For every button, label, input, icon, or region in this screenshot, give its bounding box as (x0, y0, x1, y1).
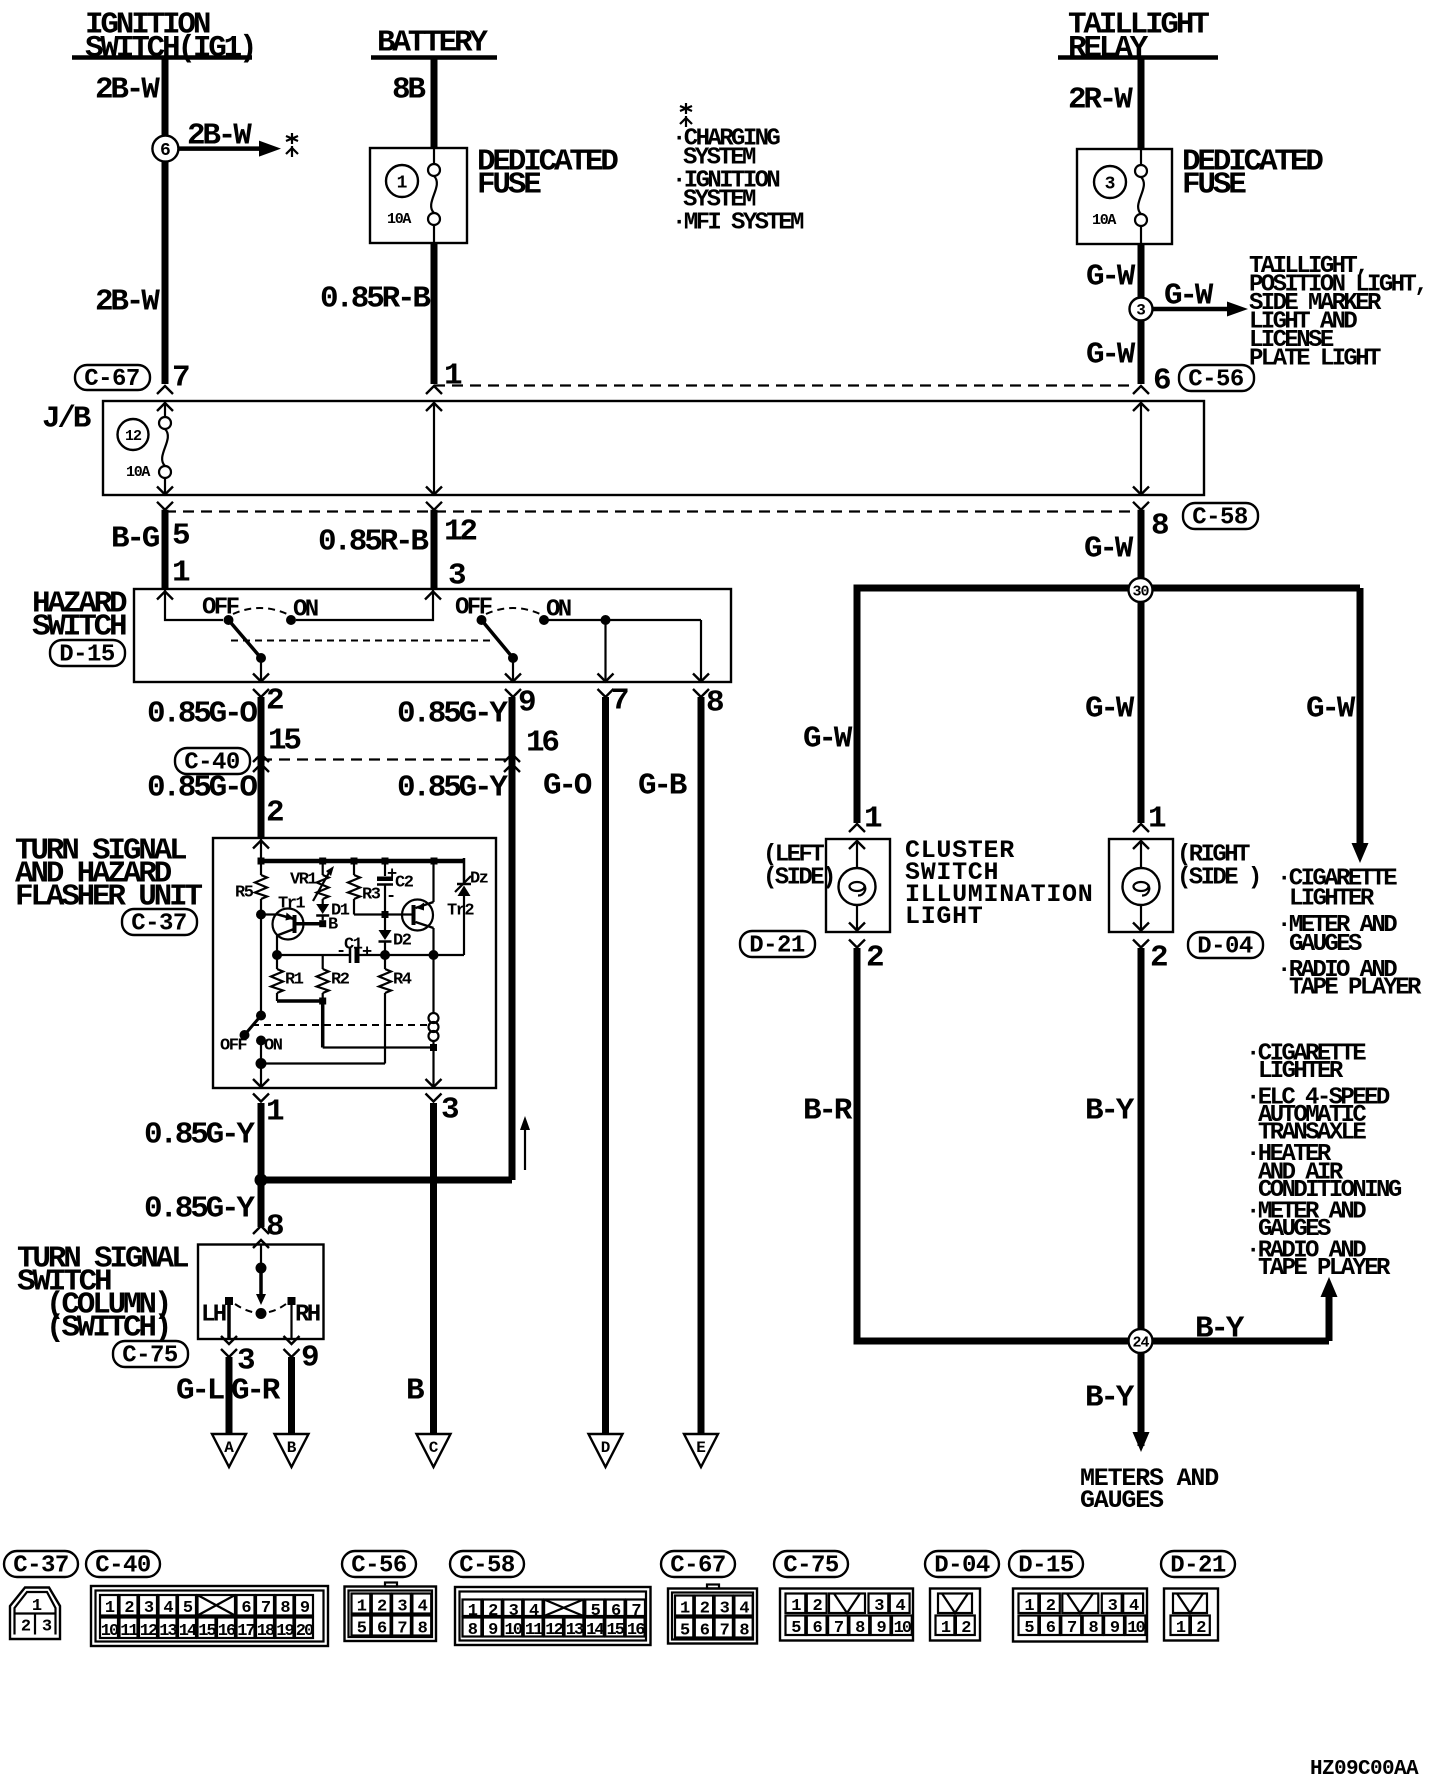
svg-text:0.85G-O: 0.85G-O (147, 771, 257, 806)
dashed arc turn signal switch (235, 1304, 286, 1313)
svg-text:19: 19 (276, 1622, 294, 1641)
variable resistor VR1 (290, 861, 334, 904)
label B-R (803, 1094, 853, 1129)
chevrons flasher pin 3 (426, 1079, 442, 1102)
svg-text:8: 8 (1151, 509, 1168, 544)
wire hazard pin3 to ON contact (296, 589, 433, 620)
hazard switch box (134, 589, 731, 682)
connector chevrons at J/B bottom pin 5 (157, 487, 173, 510)
connector label D-21 bottom row (1161, 1551, 1235, 1580)
label 0.85R-B (320, 282, 430, 317)
wire G-O hazard pin7 down to triangle D (602, 697, 609, 1434)
svg-text:D2: D2 (393, 931, 412, 950)
svg-text:Tr1: Tr1 (278, 894, 305, 913)
svg-text:7: 7 (172, 361, 189, 396)
svg-text:OFF: OFF (455, 595, 492, 622)
svg-text:G-W: G-W (1086, 260, 1136, 295)
fuse 12 rating 10A (126, 464, 150, 481)
label G-R (231, 1374, 281, 1409)
ON contact dot switch B (539, 615, 549, 625)
svg-text:0.85G-O: 0.85G-O (147, 697, 257, 732)
svg-text:TAPE PLAYER: TAPE PLAYER (1289, 975, 1422, 1002)
svg-text:VR1: VR1 (290, 870, 317, 889)
svg-text:C-56: C-56 (1188, 367, 1244, 394)
label B-G and pin 5 (111, 519, 189, 557)
triangle E (684, 1434, 718, 1467)
connector chevrons at J/B top pin 7 (157, 386, 173, 411)
wire LH contact to pin 3 (227, 1301, 231, 1339)
pin 8 label turn signal switch (266, 1210, 283, 1245)
wire inside J/B right (1140, 401, 1142, 495)
connector C-58 pinout (455, 1587, 651, 1645)
svg-text:D-21: D-21 (1170, 1553, 1226, 1580)
label cluster switch illumination light (905, 836, 1093, 931)
svg-text:2: 2 (866, 941, 883, 976)
svg-text:3: 3 (441, 1093, 459, 1128)
wire switch B blade to pin 9 (512, 658, 514, 682)
svg-text:R1: R1 (285, 970, 304, 989)
svg-text:R3: R3 (362, 885, 381, 904)
node 30 splice (1129, 578, 1153, 602)
svg-text:C: C (429, 1439, 439, 1457)
label OFF switch A (202, 595, 239, 622)
svg-text:1: 1 (172, 556, 190, 591)
svg-text:2: 2 (266, 796, 283, 831)
svg-text:·MFI SYSTEM: ·MFI SYSTEM (672, 210, 804, 237)
pin 2 label right lamp (1150, 941, 1167, 976)
wire RH contact to pin 9 (290, 1305, 292, 1339)
svg-text:10: 10 (1127, 1619, 1145, 1638)
svg-text:24: 24 (1132, 1335, 1149, 1352)
svg-text:G-W: G-W (1164, 279, 1214, 314)
svg-text:11: 11 (120, 1622, 138, 1641)
wire B-Y branch arrow up (1321, 1277, 1338, 1341)
svg-text:0.85G-Y: 0.85G-Y (144, 1118, 255, 1153)
connector label C-56 bottom row (342, 1551, 416, 1580)
wire G-W right branch arrow down (1352, 588, 1369, 863)
svg-text:2B-W: 2B-W (187, 119, 252, 154)
label ON flasher (264, 1036, 283, 1055)
svg-text:RELAY: RELAY (1068, 31, 1149, 66)
label G-W below node 3 (1086, 338, 1136, 373)
wire B-G to hazard switch pin 1 (162, 510, 169, 589)
note list cigarette lighter / ELC / heater / meter / radio (1246, 1041, 1402, 1283)
pin 2 label flasher (266, 796, 283, 831)
wire G-W left branch down (854, 588, 861, 823)
svg-text:15: 15 (198, 1622, 216, 1641)
label RIGHT SIDE (1177, 842, 1260, 892)
label G-W on branch arrow (1164, 279, 1214, 314)
turn signal and hazard flasher unit label (15, 834, 202, 915)
svg-text:2: 2 (266, 684, 283, 719)
wire 2B-W branch arrow to charging system (179, 141, 281, 157)
label 0.85G-Y upper (397, 697, 508, 732)
left cluster illumination lamp box (826, 839, 890, 932)
svg-text:0.85G-Y: 0.85G-Y (397, 771, 508, 806)
chevron hazard pin 3 (425, 592, 441, 600)
resistor R1 (271, 955, 304, 1001)
svg-text:B: B (406, 1374, 424, 1409)
pin 15 label C-40 (268, 724, 300, 759)
label G-W left branch (803, 722, 853, 757)
wire hazard pin1 to OFF contact (165, 589, 223, 620)
label 0.85G-O upper (147, 697, 257, 732)
svg-text:R2: R2 (331, 970, 350, 989)
note list cigarette lighter / meter / radio (1277, 866, 1422, 1002)
svg-text:FUSE: FUSE (477, 168, 541, 203)
wire ON contact B to pins 7 and 8 (544, 615, 701, 682)
svg-text:10: 10 (894, 1619, 912, 1638)
svg-text:12: 12 (140, 1622, 158, 1641)
svg-text:17: 17 (237, 1622, 255, 1641)
ignition switch (IG1) header (72, 8, 254, 66)
label ON switch A (293, 597, 318, 624)
wire 2B-W from ignition switch (162, 58, 169, 385)
svg-text:1: 1 (1148, 802, 1166, 837)
svg-text:B-G: B-G (111, 522, 160, 557)
svg-text:14: 14 (179, 1622, 197, 1641)
svg-text:(SIDE ): (SIDE ) (1177, 865, 1260, 892)
capacitor C2 (377, 861, 414, 911)
pin labels 1 and 3 flasher (266, 1093, 459, 1130)
svg-text:B-Y: B-Y (1195, 1312, 1245, 1347)
flasher ON contact (256, 1036, 266, 1046)
connector label D-04 (1188, 932, 1263, 961)
pin 1 label hazard (172, 556, 190, 591)
svg-text:SWITCH(IG1): SWITCH(IG1) (85, 31, 254, 66)
label DEDICATED FUSE (battery) (477, 145, 618, 203)
wire 0.85G-Y horizontal link (261, 1177, 512, 1184)
svg-text:8: 8 (706, 686, 723, 721)
svg-text:R4: R4 (393, 970, 412, 989)
svg-text:2R-W: 2R-W (1068, 83, 1133, 118)
resistor R4 (379, 955, 412, 1064)
wire coil to pin 3 (432, 1048, 434, 1087)
label 2B-W lower (95, 285, 160, 320)
pin 1 label left lamp (864, 802, 882, 837)
chevrons left lamp pin 2 (849, 923, 865, 948)
label 0.85R-B and pin 12 (318, 515, 476, 560)
rail junction dots (258, 858, 438, 865)
svg-text:2: 2 (1150, 941, 1167, 976)
svg-text:C2: C2 (395, 873, 414, 892)
svg-text:D-15: D-15 (59, 642, 115, 669)
svg-text:2B-W: 2B-W (95, 73, 160, 108)
svg-text:LIGHTER: LIGHTER (1289, 886, 1375, 913)
wire 0.85G-O hazard pin2 to C-40 (258, 697, 265, 838)
svg-text:LIGHT: LIGHT (905, 902, 984, 931)
label G-B (638, 769, 687, 804)
connector C-37 pinout (10, 1588, 60, 1640)
connector chevrons at J/B top pin 1 (426, 386, 442, 411)
connector label C-75 (113, 1341, 188, 1370)
svg-text:E: E (696, 1439, 706, 1457)
label B-Y on branch (1195, 1312, 1245, 1347)
connector label D-21 (740, 931, 815, 960)
chevrons hazard pin 2 (253, 674, 269, 698)
asterisk marker at branch arrow (286, 133, 298, 157)
wire B flasher pin3 down to triangle C (430, 1103, 437, 1434)
switch A blade (229, 620, 267, 663)
connector C-67 pinout (668, 1585, 757, 1644)
connector label C-37 (122, 909, 197, 938)
lamp right (1123, 868, 1160, 905)
svg-text:HZ09C00AA: HZ09C00AA (1310, 1758, 1419, 1780)
zener diode Dz (434, 869, 488, 955)
wire B-Y right lamp down (1138, 948, 1145, 1446)
svg-text:C1: C1 (344, 935, 363, 954)
wire G-W middle branch down (1138, 590, 1145, 823)
connector label D-15 bottom row (1009, 1551, 1083, 1580)
svg-text:8B: 8B (392, 73, 425, 108)
flow arrow up beside 0.85G-Y wire (520, 1116, 530, 1170)
svg-text:13: 13 (566, 1621, 584, 1640)
resistor R5 (235, 861, 267, 915)
wire 0.85G-Y to turn signal switch pin 8 (258, 1180, 265, 1227)
pin 16 label C-40 (526, 726, 558, 761)
chevrons left lamp pin 1 (849, 824, 865, 849)
label OFF switch B (455, 595, 492, 622)
wire R1 to R2 junction (277, 998, 326, 1005)
wire 8B from battery (431, 58, 438, 149)
svg-text:-: - (386, 887, 395, 906)
turn signal switch label (17, 1242, 188, 1346)
drawing number HZ09C00AA (1310, 1758, 1419, 1780)
pin 6 label and connector label C-56 (1153, 364, 1254, 399)
label G-W and pin 8 connector C-58 (1084, 503, 1258, 567)
svg-text:G-O: G-O (543, 769, 592, 804)
connector chevrons at J/B bottom pin 8 (1133, 487, 1149, 510)
svg-text:B-Y: B-Y (1085, 1381, 1135, 1416)
svg-text:16: 16 (526, 726, 558, 761)
svg-text:0.85G-Y: 0.85G-Y (397, 697, 508, 732)
svg-text:D-21: D-21 (749, 933, 805, 960)
connector label C-58 bottom row (450, 1551, 524, 1580)
svg-text:1: 1 (266, 1095, 284, 1130)
svg-text:C-37: C-37 (131, 911, 187, 938)
wire inside J/B left (164, 401, 166, 417)
svg-text:10A: 10A (126, 464, 150, 481)
diode D2 (379, 918, 412, 955)
pin 1 label (444, 359, 462, 394)
note text taillight/position/side marker (1249, 253, 1426, 373)
wire R3 to Tr2 base (354, 911, 413, 918)
svg-text:3: 3 (1105, 175, 1116, 195)
connector C-40 pinout (91, 1586, 328, 1646)
svg-text:3: 3 (1136, 302, 1146, 320)
junction block J/B box (103, 401, 1204, 495)
label meters and gauges (1080, 1464, 1219, 1515)
wire G-L to triangle A (226, 1357, 233, 1434)
resistor R2 (317, 955, 350, 1001)
svg-text:LIGHTER: LIGHTER (1258, 1058, 1344, 1085)
connector label C-40 bottom row (86, 1551, 160, 1580)
chevrons turn signal switch pin 8 (253, 1226, 269, 1248)
wire collector node down to flasher switch (260, 915, 262, 1016)
svg-text:G-R: G-R (231, 1374, 281, 1409)
svg-text:12: 12 (444, 515, 476, 550)
chevrons pin 3 turn signal (221, 1336, 237, 1357)
svg-text:C-40: C-40 (95, 1553, 151, 1580)
pin 1 label right lamp (1148, 802, 1166, 837)
svg-text:0.85R-B: 0.85R-B (320, 282, 430, 317)
base link Tr1 to node B (296, 915, 338, 934)
turn signal switch blade arm (256, 1272, 267, 1319)
label LEFT SIDE (763, 842, 834, 892)
label ON switch B (546, 597, 571, 624)
node Tr1 collector junction (256, 910, 266, 920)
asterisk note marker (680, 103, 692, 127)
svg-text:PLATE LIGHT: PLATE LIGHT (1249, 346, 1381, 373)
pin labels 3 and 9 turn signal (237, 1341, 318, 1379)
svg-text:10A: 10A (1092, 212, 1116, 229)
triangle A (212, 1434, 246, 1467)
flasher top rail (259, 858, 464, 884)
dashed arc switch A (233, 608, 287, 614)
chevrons flasher pin 1 (253, 1079, 269, 1102)
svg-text:10: 10 (504, 1621, 522, 1640)
label 0.85G-Y lower left (144, 1192, 255, 1227)
svg-text:TAPE PLAYER: TAPE PLAYER (1258, 1255, 1391, 1282)
svg-text:B-R: B-R (803, 1094, 853, 1129)
pin 2 label left lamp (866, 941, 883, 976)
node 3 splice on G-W wire (1130, 298, 1153, 321)
svg-text:0.85G-Y: 0.85G-Y (144, 1192, 255, 1227)
flasher bottom rail (272, 950, 439, 960)
pin 3 label hazard (448, 559, 466, 594)
svg-text:5: 5 (172, 519, 189, 554)
svg-text:ON: ON (264, 1036, 283, 1055)
wire 0.85R-B to hazard switch pin 3 (431, 510, 438, 589)
label G-W right branch (1306, 692, 1356, 727)
switch B blade (482, 620, 519, 663)
node 24 splice (1129, 1329, 1153, 1353)
svg-text:16: 16 (218, 1622, 236, 1641)
wire G-R to triangle B (288, 1357, 295, 1434)
connector D-15 pinout (1013, 1589, 1147, 1642)
diode D1 (316, 901, 350, 920)
svg-text:D-15: D-15 (1018, 1553, 1074, 1580)
chevrons C-40 pin 15 (253, 754, 269, 772)
connector C-56 pinout (345, 1583, 437, 1642)
svg-text:D-04: D-04 (1197, 934, 1253, 961)
svg-text:Tr2: Tr2 (447, 901, 474, 920)
wire G-W from C-58 to node 30 (1138, 510, 1145, 590)
chevrons hazard pin 7 (598, 674, 614, 698)
svg-text:C-75: C-75 (122, 1343, 178, 1370)
flasher unit box (213, 838, 496, 1088)
dashed link flasher switch to coil (252, 1024, 428, 1026)
svg-text:15: 15 (268, 724, 300, 759)
OFF contact dot switch A (224, 615, 234, 625)
svg-text:C-58: C-58 (459, 1553, 515, 1580)
svg-text:16: 16 (627, 1621, 645, 1640)
dashed connector line C-40 (261, 758, 511, 760)
dedicated fuse 3 box (1077, 149, 1172, 244)
dashed connector line C-58 bottom (165, 510, 1134, 512)
svg-text:C-56: C-56 (351, 1553, 407, 1580)
chevrons hazard pin 8 (693, 674, 709, 698)
svg-text:7: 7 (611, 684, 628, 719)
wire R2 junction down and right to coil column (323, 1001, 437, 1051)
svg-text:6: 6 (1153, 364, 1170, 399)
svg-text:1: 1 (864, 802, 882, 837)
svg-text:A: A (224, 1439, 234, 1457)
svg-text:G-L: G-L (176, 1374, 224, 1409)
lamp left (839, 868, 876, 905)
label 0.85G-Y upper left (144, 1118, 255, 1153)
transistor Tr1 (261, 894, 305, 955)
connector label C-75 bottom row (774, 1551, 848, 1580)
label G-L (176, 1374, 224, 1409)
svg-text:20: 20 (296, 1622, 314, 1641)
chevrons hazard pin 9 (505, 674, 521, 698)
wire B-Y down arrow to meters (1133, 1432, 1150, 1452)
svg-text:OFF: OFF (202, 595, 239, 622)
svg-text:OFF: OFF (220, 1036, 247, 1055)
turn signal switch box (198, 1245, 324, 1340)
B-Y collector bus (857, 1338, 1329, 1345)
ON contact dot switch A (286, 615, 296, 625)
node 6 splice on ignition wire (152, 136, 178, 162)
label B-Y bottom (1085, 1381, 1135, 1416)
svg-text:9: 9 (518, 686, 535, 721)
chevrons right lamp pin 1 (1133, 824, 1149, 849)
wire pin2 to top rail (260, 838, 262, 861)
connector label C-37 bottom row (4, 1551, 78, 1580)
wire R4 to ON contact column (256, 1058, 386, 1069)
svg-text:6: 6 (160, 141, 171, 161)
connector chevrons at J/B bottom pin 12 (426, 487, 442, 510)
svg-text:LH: LH (201, 1302, 226, 1329)
svg-text:10: 10 (101, 1622, 119, 1641)
dashed arc switch B (486, 608, 540, 614)
taillight relay header (1058, 8, 1218, 66)
label 2B-W on branch arrow (187, 119, 252, 154)
svg-text:J/B: J/B (42, 402, 91, 437)
dashed mechanical link hazard (231, 640, 490, 642)
svg-text:D1: D1 (331, 901, 350, 920)
wire 2R-W from taillight relay (1138, 58, 1145, 150)
svg-text:9: 9 (301, 1341, 318, 1376)
label G-W middle branch (1085, 692, 1135, 727)
svg-text:C-67: C-67 (84, 366, 140, 393)
svg-text:G-W: G-W (1085, 692, 1135, 727)
svg-text:+: + (362, 943, 372, 962)
svg-text:B-Y: B-Y (1085, 1094, 1135, 1129)
label 2B-W upper (95, 73, 160, 108)
RH contact (288, 1297, 320, 1329)
svg-text:18: 18 (257, 1622, 275, 1641)
svg-text:FUSE: FUSE (1182, 168, 1246, 203)
svg-text:B: B (287, 1439, 297, 1457)
label J/B (42, 402, 91, 437)
connector D-21 pinout (1164, 1589, 1218, 1641)
G-W distribution bus (854, 585, 1361, 592)
svg-text:R5: R5 (235, 883, 254, 902)
label 0.85G-Y lower (397, 771, 508, 806)
svg-text:C-67: C-67 (670, 1553, 726, 1580)
label 8B (392, 73, 425, 108)
pin 7 label at C-67 (172, 361, 189, 396)
svg-text:14: 14 (586, 1621, 604, 1640)
label 0.85G-O lower (147, 771, 257, 806)
connector label C-67 bottom row (661, 1551, 735, 1580)
chevrons pin 9 turn signal (284, 1336, 300, 1357)
triangle B (275, 1434, 309, 1467)
LH contact (201, 1297, 233, 1329)
junction node 0.85G-Y (255, 1174, 268, 1187)
